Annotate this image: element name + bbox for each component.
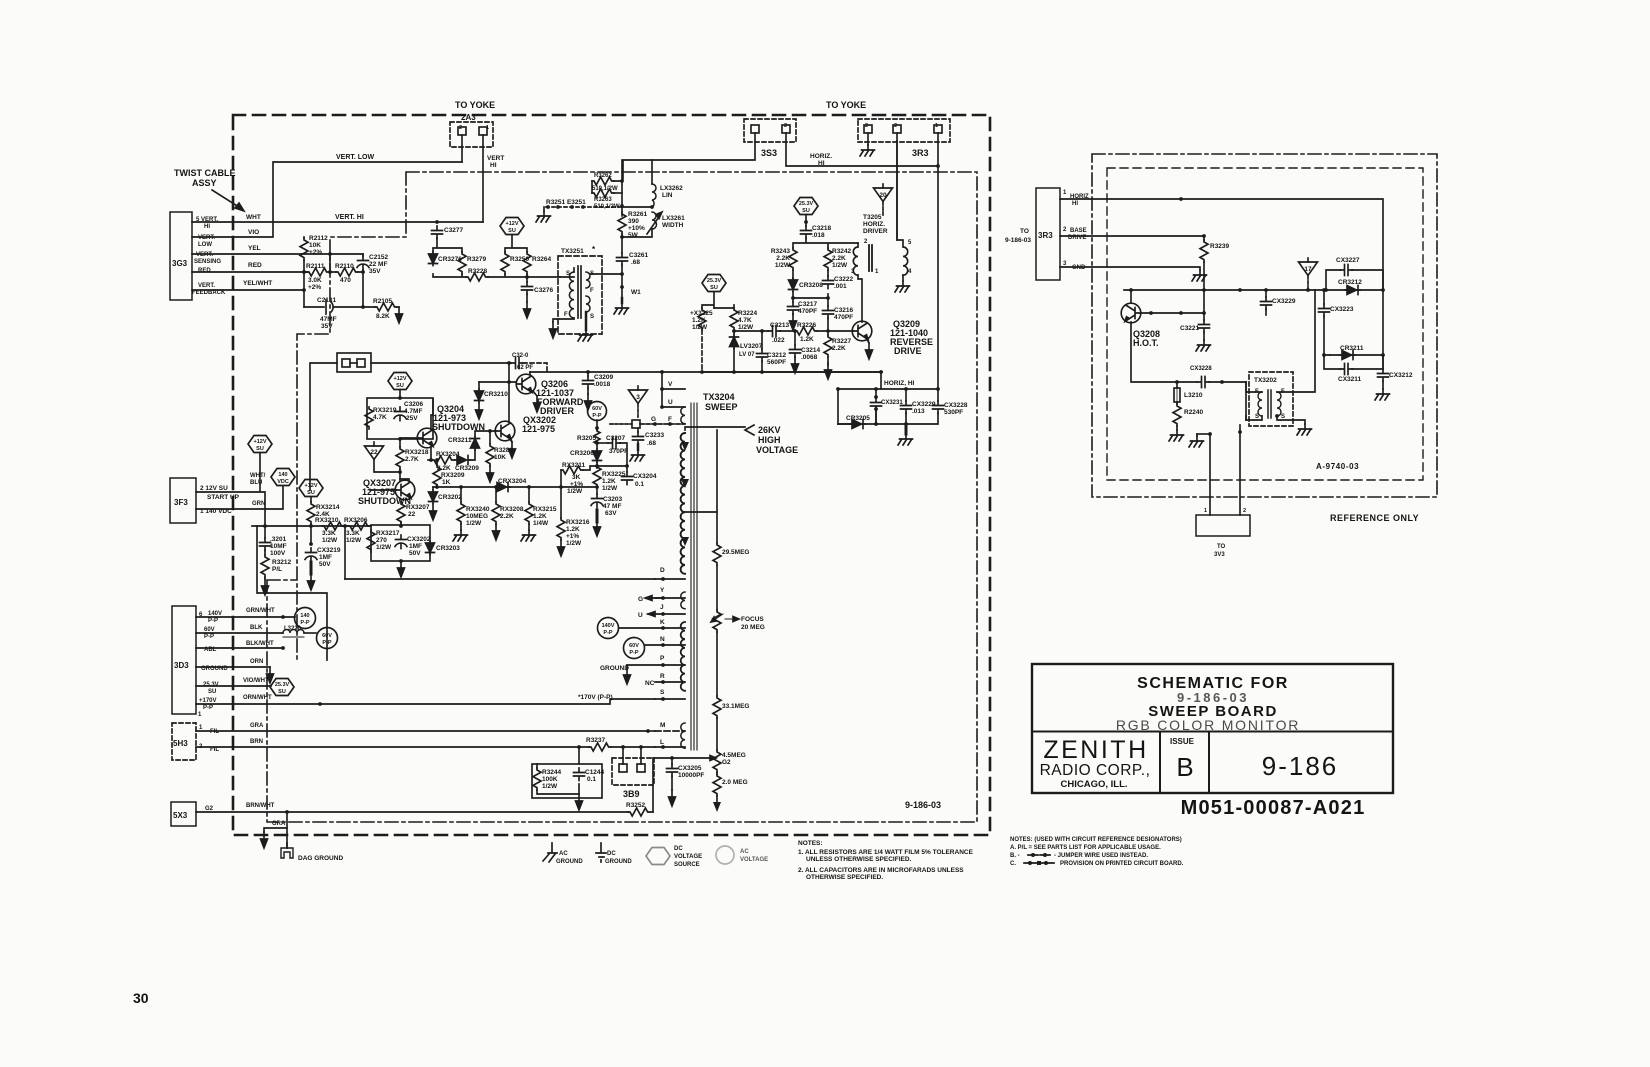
title block divider vertical 2 [1208, 732, 1210, 794]
svg-text:C3212: C3212 [767, 352, 787, 359]
svg-text:VIO/WHT: VIO/WHT [243, 678, 269, 684]
svg-text:C3213: C3213 [770, 322, 790, 329]
wire 60v pp down [596, 420, 598, 430]
wire TX3251 primary top [560, 268, 574, 277]
T3205 core [869, 245, 872, 271]
svg-text:370PF: 370PF [609, 448, 628, 455]
ground TX3251 left [550, 322, 557, 338]
svg-text:1MF: 1MF [319, 554, 332, 561]
resistor R3244 [533, 768, 541, 790]
wire CR3210 to base node [479, 381, 516, 383]
wire HV tap to bleeder [685, 511, 717, 513]
svg-text:RX3219: RX3219 [373, 407, 397, 414]
svg-text:BRN: BRN [250, 739, 263, 745]
capacitor C3217 [788, 302, 799, 315]
inner board dash-dot border [267, 172, 977, 822]
svg-text:22: 22 [408, 511, 416, 518]
wire bottom row cluster [838, 410, 938, 424]
svg-text:TO YOKE: TO YOKE [826, 100, 866, 110]
connector 3R3 top dashed box [858, 119, 950, 142]
wire VERT FEEDBACK [192, 289, 304, 291]
svg-text:1/2W: 1/2W [346, 537, 362, 544]
wire c3216 to base row [827, 318, 829, 331]
resistor RX3225 [593, 465, 601, 487]
capacitor C3216 [827, 298, 829, 306]
svg-text:62 PF: 62 PF [517, 365, 533, 371]
TX3251 core [578, 266, 581, 318]
svg-text:1.2K: 1.2K [800, 336, 814, 343]
resistor R3243 [789, 248, 797, 270]
svg-text:R3244: R3244 [542, 769, 562, 776]
wire 3R3 pin b down [896, 133, 898, 240]
svg-text:ORN: ORN [250, 659, 263, 665]
QX3202 emitter ground [509, 438, 512, 442]
svg-text:R2112: R2112 [309, 235, 328, 242]
svg-text:1/2W: 1/2W [566, 540, 582, 547]
ground cluster [905, 424, 908, 434]
svg-text:2.2K: 2.2K [500, 513, 514, 520]
svg-text:2: 2 [784, 123, 787, 129]
svg-text:HIGH: HIGH [758, 435, 781, 445]
svg-text:CR3209: CR3209 [455, 465, 479, 472]
svg-text:WHT/: WHT/ [250, 473, 266, 479]
HV diode 1 [681, 442, 689, 451]
svg-text:C3206: C3206 [404, 401, 424, 408]
svg-text:SU: SU [208, 689, 216, 695]
svg-text:CR3206: CR3206 [570, 450, 594, 457]
connector 3D3 box [172, 606, 196, 714]
svg-text:1.2K: 1.2K [692, 317, 706, 324]
svg-text:G: G [651, 416, 656, 423]
capacitor L3201 [264, 526, 266, 538]
svg-text:5W: 5W [628, 232, 639, 239]
ground tx3202 right [1297, 424, 1312, 435]
hexagon 25.3V SU rx3225 [702, 275, 726, 292]
junction cr3206 bottom [595, 464, 599, 468]
resistor R3212 [264, 550, 266, 555]
resistor RX3216 [560, 487, 562, 518]
wire tx3202 right pins [1277, 290, 1315, 424]
svg-text:P-P: P-P [208, 618, 218, 624]
wire c3277 to row [433, 238, 462, 252]
connector 5H3 dashed box [172, 723, 196, 760]
legend DC voltage source hexagon [646, 848, 670, 865]
ground C3233 [637, 444, 640, 450]
svg-text:P-P: P-P [322, 640, 332, 646]
svg-text:3V3: 3V3 [1214, 552, 1225, 558]
resistor 2.0MEG [716, 772, 718, 774]
svg-text:2.2K: 2.2K [832, 345, 846, 352]
wire RED row [192, 271, 308, 273]
T3205 secondary [897, 141, 908, 275]
ground RX3216 [558, 540, 565, 556]
capacitor C3233 [637, 428, 639, 432]
svg-text:GRA: GRA [250, 723, 264, 729]
svg-text:1: 1 [198, 712, 202, 718]
shutdown filter box [371, 525, 430, 561]
svg-text:CX3205: CX3205 [678, 765, 702, 772]
wire base riser [508, 363, 510, 382]
ground arrow c3276 [526, 294, 528, 302]
svg-text:9-186-03: 9-186-03 [1005, 237, 1031, 244]
svg-text:LOW: LOW [198, 242, 212, 248]
svg-text:SOURCE: SOURCE [674, 862, 700, 868]
TX3204 winding K-S [681, 622, 685, 691]
svg-text:CHICAGO, ILL.: CHICAGO, ILL. [1060, 779, 1127, 790]
capacitor C3206 [394, 407, 406, 421]
svg-text:2: 2 [864, 239, 868, 245]
svg-text:BASE: BASE [1070, 228, 1087, 234]
svg-text:35V: 35V [369, 268, 381, 275]
capacitor C3207 [597, 442, 608, 444]
svg-text:510,1/2W: 510,1/2W [594, 204, 620, 210]
svg-text:.3201: .3201 [270, 536, 287, 543]
svg-text:U: U [638, 612, 643, 619]
svg-text:P-P: P-P [592, 413, 602, 419]
resistor 29.5MEG [713, 543, 721, 565]
svg-text:+12V: +12V [506, 221, 519, 227]
svg-text:C3214: C3214 [801, 347, 821, 354]
title block divider horizontal [1032, 731, 1393, 733]
TX3251 secondary winding bottom [586, 296, 590, 312]
svg-text:B. -: B. - [1010, 853, 1020, 859]
wire triangle 22 [374, 460, 400, 472]
svg-text:60V: 60V [322, 633, 332, 639]
inductor LX3262 LIN [651, 160, 653, 184]
svg-text:J: J [660, 604, 664, 611]
wire hex to box [399, 390, 401, 398]
capacitor C3222 [827, 270, 829, 276]
svg-text:4.7K: 4.7K [738, 317, 752, 324]
svg-text:+12V: +12V [254, 439, 267, 445]
svg-text:F: F [564, 312, 568, 318]
junction c3276 [525, 275, 529, 279]
svg-text:17: 17 [1304, 266, 1312, 273]
wire bleeder mid1 [716, 565, 718, 610]
svg-text:FIL: FIL [210, 729, 219, 735]
wire tri3 to G line [637, 404, 639, 419]
resistor R3262 [592, 177, 614, 185]
svg-text:RX3211: RX3211 [562, 462, 586, 469]
diode CR3205 [837, 389, 839, 424]
wire base drive ref [1060, 235, 1204, 237]
HV diode 2 [681, 479, 689, 488]
reference outer dash-dot box [1092, 154, 1437, 497]
wire FIL BRN [196, 746, 589, 748]
svg-text:.013: .013 [912, 408, 925, 415]
svg-text:CX3219: CX3219 [317, 547, 341, 554]
svg-text:CR3203: CR3203 [436, 545, 460, 552]
svg-text:H.O.T.: H.O.T. [1133, 338, 1159, 348]
svg-text:.001: .001 [834, 283, 847, 290]
svg-text:3.3K: 3.3K [346, 530, 360, 537]
svg-text:S: S [1255, 414, 1259, 420]
svg-text:2: 2 [865, 123, 868, 129]
svg-text:+2%: +2% [308, 284, 321, 291]
capacitor C2152 [357, 256, 369, 270]
svg-text:2.2K: 2.2K [776, 255, 790, 262]
resistor R3242 [824, 248, 832, 270]
svg-text:VERT.: VERT. [196, 252, 213, 258]
svg-text:50V: 50V [409, 550, 421, 557]
svg-text:100K: 100K [542, 776, 558, 783]
resistor R2112 [303, 237, 305, 238]
capacitor CX3205 [671, 758, 673, 764]
svg-text:AC: AC [740, 849, 749, 855]
svg-text:NOTES: (USED WITH CIRCUIT REFE: NOTES: (USED WITH CIRCUIT REFERENCE DESI… [1010, 837, 1182, 843]
wire 25.3v su [196, 685, 271, 687]
TX3204 core [691, 403, 697, 750]
wire gnd ref [1060, 267, 1200, 270]
wire primary bottom to Q3209 collector [858, 275, 862, 322]
svg-text:VOLTAGE: VOLTAGE [740, 857, 768, 863]
svg-text:1.2K: 1.2K [602, 478, 616, 485]
triangle 22 [365, 442, 384, 460]
svg-text:+10%: +10% [628, 225, 645, 232]
svg-text:SU: SU [396, 383, 404, 389]
svg-text:N: N [660, 636, 665, 643]
ground R3227 [827, 357, 829, 365]
diode CR3210 [478, 382, 480, 389]
wire tx3202 left pins [1246, 382, 1262, 420]
svg-text:3G3: 3G3 [172, 259, 188, 268]
svg-text:BRN/WHT: BRN/WHT [246, 803, 275, 809]
svg-text:4: 4 [908, 269, 912, 275]
ground R2240 [1176, 426, 1178, 430]
svg-text:CR3211: CR3211 [448, 437, 472, 444]
arrow twist cable [212, 190, 242, 209]
svg-text:K: K [660, 619, 665, 626]
resistor R3264 [523, 252, 531, 274]
ground R3251 [543, 207, 545, 211]
hexagon +12V SU center [500, 218, 524, 235]
resistor RX3204 [432, 456, 454, 464]
wire ABL [196, 647, 283, 649]
HV diode 3 [681, 537, 689, 546]
svg-text:L: L [660, 739, 664, 746]
svg-text:CX3202: CX3202 [407, 536, 431, 543]
svg-text:9-186: 9-186 [1262, 751, 1339, 781]
capacitor CX3223 [1323, 290, 1325, 304]
bottom connector box [1196, 515, 1250, 536]
svg-text:25V: 25V [406, 415, 418, 422]
svg-text:UNLESS OTHERWISE SPECIFIED.: UNLESS OTHERWISE SPECIFIED. [806, 856, 912, 863]
svg-text:60V: 60V [592, 406, 602, 412]
wire bleeder mid3 [716, 718, 718, 750]
svg-text:0.1: 0.1 [635, 481, 644, 488]
svg-text:+12V: +12V [305, 483, 318, 489]
svg-text:DC: DC [674, 846, 683, 852]
ground GRA [264, 828, 287, 832]
svg-text:RX3218: RX3218 [405, 449, 429, 456]
svg-text:47 MF: 47 MF [603, 503, 621, 510]
svg-text:C2152: C2152 [369, 254, 389, 261]
svg-text:.018: .018 [812, 232, 825, 239]
svg-text:GRN/WHT: GRN/WHT [246, 608, 275, 614]
svg-text:1: 1 [199, 725, 203, 731]
svg-text:DRIVER: DRIVER [863, 228, 888, 235]
svg-text:470PF: 470PF [798, 308, 817, 315]
svg-text:1: 1 [875, 269, 879, 275]
capacitor C1244 [574, 768, 585, 781]
svg-text:BLK: BLK [250, 625, 263, 631]
svg-text:2: 2 [1243, 508, 1246, 514]
svg-text:1: 1 [1063, 190, 1067, 196]
ground W1 [621, 298, 624, 303]
transformer TX3202 dashed box [1249, 372, 1293, 426]
svg-text:10000PF: 10000PF [678, 772, 704, 779]
capacitor CX3202 [395, 535, 407, 549]
svg-text:3.3K: 3.3K [322, 530, 336, 537]
Q3208 emitter [1131, 322, 1197, 382]
svg-text:.0018: .0018 [594, 381, 611, 388]
svg-text:60V: 60V [204, 627, 215, 633]
svg-text:TX3204: TX3204 [703, 392, 735, 402]
svg-text:RED: RED [248, 262, 262, 269]
svg-text:BLU: BLU [250, 480, 262, 486]
wire bleeder mid2 [716, 632, 718, 696]
focus connector square [610, 423, 631, 425]
svg-text:+1%: +1% [570, 481, 583, 488]
svg-text:29.5MEG: 29.5MEG [722, 549, 749, 556]
svg-text:C3218: C3218 [812, 225, 832, 232]
svg-text:8.2K: 8.2K [376, 313, 390, 320]
svg-text:20: 20 [879, 192, 887, 199]
Q3208 base rail [1141, 312, 1204, 314]
svg-text:VOLTAGE: VOLTAGE [674, 854, 702, 860]
svg-text:F: F [590, 288, 594, 294]
node R2112 bottom [303, 260, 305, 307]
riser to bottom connector pin2 [1239, 425, 1241, 515]
wire cr3207 bottom [733, 348, 735, 372]
ground RX3215 [528, 524, 530, 530]
callout 140V P-P xfmr [598, 618, 619, 639]
svg-text:30: 30 [133, 990, 149, 1006]
wire mid node [793, 292, 828, 302]
capacitor CX3229b [905, 389, 907, 401]
svg-text:1/2W: 1/2W [466, 520, 482, 527]
capacitor CX3204 [626, 466, 628, 472]
svg-text:3K: 3K [572, 474, 581, 481]
capacitor CX3211 [1324, 355, 1340, 369]
connector 5X3 box [171, 802, 196, 826]
svg-text:1/2W: 1/2W [322, 537, 338, 544]
capacitor C3221 [1203, 313, 1205, 320]
capacitor C3214 [793, 329, 797, 333]
diode CR3203 [426, 541, 435, 555]
svg-text:C32-0: C32-0 [512, 353, 529, 359]
svg-text:GROUND: GROUND [556, 859, 583, 865]
wire G2 long [196, 811, 628, 813]
capacitor C3218 [801, 226, 812, 239]
svg-text:Y: Y [660, 587, 665, 594]
svg-text:C3233: C3233 [645, 432, 665, 439]
wire TX3251 primary bottom to ground [553, 318, 574, 322]
Q3209 base row [817, 330, 853, 332]
wire FIL GRA [196, 730, 648, 732]
resistor 4.5MEG [713, 750, 721, 772]
svg-text:SWEEP: SWEEP [705, 402, 738, 412]
svg-text:R3279: R3279 [467, 256, 487, 263]
capacitor C3276 [526, 277, 528, 282]
svg-text:0.1: 0.1 [587, 776, 596, 783]
svg-text:2: 2 [1063, 227, 1067, 233]
svg-text:HI: HI [204, 224, 210, 230]
svg-text:1: 1 [486, 125, 489, 131]
svg-text:P-P: P-P [204, 634, 214, 640]
capacitor CX3212 [1382, 290, 1384, 355]
capacitor CX3228 [937, 389, 939, 401]
diode CRX3204 [495, 483, 510, 492]
wire sensing rail down [329, 254, 331, 272]
svg-text:RX3217: RX3217 [376, 530, 400, 537]
svg-text:CX3229: CX3229 [912, 401, 936, 408]
ground RX3208 [493, 524, 500, 540]
svg-text:4.7K: 4.7K [373, 414, 387, 421]
transistor QX3207 [395, 480, 415, 500]
resistor R3239 [1203, 236, 1205, 240]
svg-text:RX3207: RX3207 [406, 504, 430, 511]
svg-text:GROUND: GROUND [600, 665, 629, 672]
svg-text:SU: SU [256, 446, 264, 452]
connector 3G3 box [170, 212, 192, 300]
connector 3B9 dashed box [612, 758, 654, 785]
pins G F [640, 423, 685, 425]
arrow 26KV [745, 425, 754, 435]
wire lin bottom rail [622, 206, 652, 208]
capacitor C3212 [760, 329, 764, 333]
resistor R3279 [458, 252, 466, 274]
svg-text:HORIZ.: HORIZ. [810, 153, 832, 160]
wire 2A3 pin1 to VERT HI [482, 135, 484, 222]
wire tri20 down [882, 202, 884, 217]
connector 2A3 pin 1 [479, 127, 487, 135]
svg-text:NC: NC [645, 680, 655, 687]
ground R3282 [487, 466, 494, 482]
box vertical output block [257, 526, 327, 660]
svg-text:VERT.: VERT. [198, 283, 215, 289]
svg-text:OTHERWISE SPECIFIED.: OTHERWISE SPECIFIED. [806, 874, 883, 881]
wire tri17 [1307, 276, 1309, 290]
title block divider vertical 1 [1159, 732, 1161, 794]
inductor LX3261 WIDTH [652, 212, 657, 229]
ground bottom riser [1196, 434, 1198, 436]
wire emitter branch down [1245, 382, 1247, 420]
diode CR3209 [455, 456, 470, 465]
svg-text:- JUMPER WIRE USED INSTEAD.: - JUMPER WIRE USED INSTEAD. [1054, 853, 1148, 859]
filter box R3244 [532, 764, 602, 798]
svg-text:C3222: C3222 [834, 276, 854, 283]
svg-text:RX3209: RX3209 [441, 472, 465, 479]
resistor 33.1MEG [713, 696, 721, 718]
transistor Q3208 [1121, 303, 1141, 323]
resistor RX3209 [435, 458, 439, 462]
svg-text:1: 1 [935, 123, 938, 129]
svg-text:RX3208: RX3208 [500, 506, 524, 513]
svg-text:3F3: 3F3 [174, 498, 188, 507]
svg-text:LX3261: LX3261 [662, 215, 685, 222]
ground 3D3 [267, 667, 274, 683]
svg-text:530PF: 530PF [944, 409, 963, 416]
svg-text:G2: G2 [205, 806, 214, 812]
wire 3D3 ground [196, 666, 270, 668]
resistor R3261 [618, 212, 626, 234]
svg-text:47MF: 47MF [320, 316, 337, 323]
svg-text:VDC: VDC [277, 479, 289, 485]
TX3202 primary [1258, 392, 1262, 416]
TX3204 HV winding with diodes [681, 433, 685, 574]
svg-text:R: R [660, 673, 665, 680]
